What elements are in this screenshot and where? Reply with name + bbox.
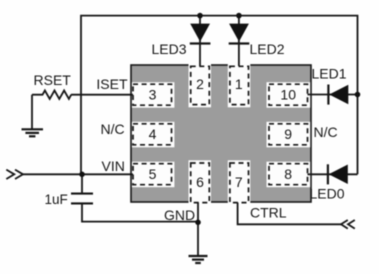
svg-text:ISET: ISET [96, 76, 128, 92]
wire: GND from pin 6 to ground [197, 202, 199, 256]
LED1 (right upper diode) [308, 85, 358, 105]
svg-text:1: 1 [235, 76, 243, 92]
svg-text:5: 5 [149, 166, 157, 182]
svg-text:N/C: N/C [101, 121, 125, 137]
label LED0 [310, 185, 345, 201]
pin number 10 [280, 87, 296, 103]
pin number 8 [284, 166, 292, 182]
junction node: top rail / LED3 [197, 13, 203, 19]
svg-text:6: 6 [196, 174, 204, 190]
wire: ISET from RSET to pin 3 [71, 94, 133, 96]
pin notches (white cutouts) [132, 63, 310, 203]
label N/C left [101, 121, 125, 137]
pin 7 box [230, 163, 249, 203]
label LED1 [312, 66, 347, 82]
svg-text:GND: GND [164, 207, 195, 223]
svg-text:N/C: N/C [314, 124, 338, 140]
input chevron >> [6, 170, 23, 179]
wire: CTRL from pin 7 to input [238, 202, 342, 224]
pin 2 box [191, 66, 210, 104]
svg-text:9: 9 [284, 126, 292, 142]
svg-text:RSET: RSET [34, 72, 72, 88]
label LED3 [152, 41, 187, 57]
svg-text:LED0: LED0 [310, 185, 345, 201]
label VIN [102, 158, 125, 174]
junction node: top rail / LED2 [236, 13, 242, 19]
wire: VIN input to pin 5 [23, 173, 133, 175]
pin 5 box [133, 164, 172, 185]
svg-text:LED3: LED3 [152, 41, 187, 57]
junction node: GND rail [195, 220, 201, 226]
pin number 1 [235, 76, 243, 92]
svg-text:2: 2 [196, 76, 204, 92]
pin 1 box [230, 66, 249, 104]
label ISET [96, 76, 128, 92]
pin number 2 [196, 76, 204, 92]
pin number 5 [149, 166, 157, 182]
junction node: right rail / LED1 [355, 92, 361, 98]
capacitor C1 1uF [71, 174, 198, 221]
svg-text:VIN: VIN [102, 158, 125, 174]
pin 3 box [133, 84, 172, 105]
junction node: VIN / capacitor [79, 172, 85, 178]
svg-text:CTRL: CTRL [250, 204, 287, 220]
pin 9 box [269, 124, 308, 145]
svg-text:7: 7 [235, 174, 243, 190]
pin 6 box [191, 163, 210, 203]
label RSET [34, 72, 72, 88]
pin number 9 [284, 126, 292, 142]
svg-text:1uF: 1uF [45, 192, 68, 207]
label GND [164, 207, 195, 223]
pin number 4 [149, 126, 157, 142]
pin number 3 [149, 87, 157, 103]
pin number 6 [196, 174, 204, 190]
resistor RSET [32, 91, 71, 129]
label 1uF [45, 192, 68, 207]
pin 10 box [269, 84, 308, 105]
svg-text:LED1: LED1 [312, 66, 347, 82]
ground (RSET) [22, 129, 44, 136]
label CTRL [250, 204, 287, 220]
ground (GND) [189, 256, 208, 263]
label LED2 [250, 41, 285, 57]
IC body U1 [131, 65, 311, 202]
pin 4 box [133, 124, 172, 145]
wire: top VIN rail [81, 16, 358, 175]
LED3 (top left diode) [190, 16, 211, 66]
svg-text:LED2: LED2 [250, 41, 285, 57]
LED2 (top right diode) [229, 16, 250, 66]
svg-text:10: 10 [280, 87, 296, 103]
LED0 (right lower diode) [308, 164, 358, 184]
pin 8 box [269, 164, 308, 185]
svg-text:3: 3 [149, 87, 157, 103]
svg-text:8: 8 [284, 166, 292, 182]
input chevron << [341, 220, 355, 229]
label N/C right [314, 124, 338, 140]
pin number 7 [235, 174, 243, 190]
svg-text:4: 4 [149, 126, 157, 142]
